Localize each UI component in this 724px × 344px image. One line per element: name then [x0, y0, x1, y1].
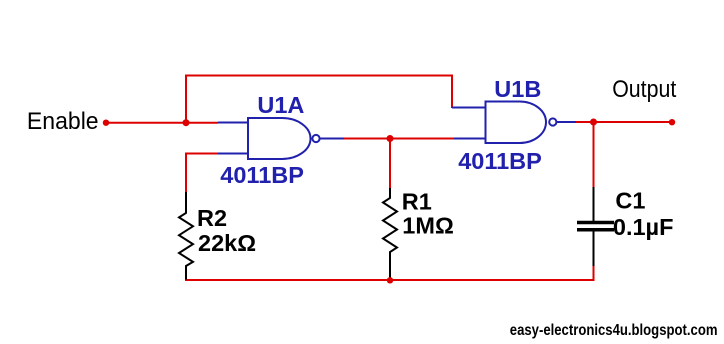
NAND gate U1A: [218, 118, 344, 159]
svg-text:4011BP: 4011BP: [220, 162, 304, 188]
wire: bottom rail: [185, 266, 594, 280]
junction at Enable/U1A input: [183, 119, 190, 126]
svg-text:U1B: U1B: [494, 76, 541, 102]
label U1B: [494, 76, 541, 102]
svg-text:Output: Output: [612, 75, 677, 102]
label C1: [615, 188, 645, 214]
capacitor C1: [577, 187, 614, 266]
label R1: [402, 189, 432, 215]
wire: junction down to R1 top: [389, 139, 391, 190]
svg-text:R1: R1: [402, 189, 432, 215]
wire: Enable to U1A input junction: [106, 122, 218, 124]
label U1A: [257, 92, 304, 118]
label R2: [197, 205, 227, 231]
value label 4011BP for U1A: [220, 162, 304, 188]
watermark text: [510, 322, 718, 339]
node Output label: [612, 75, 677, 102]
svg-text:Enable: Enable: [27, 108, 99, 135]
value label 22kΩ: [198, 230, 256, 256]
svg-text:1MΩ: 1MΩ: [402, 213, 454, 239]
junction at U1A output / R1: [387, 135, 394, 142]
svg-text:22kΩ: 22kΩ: [198, 230, 256, 256]
NAND gate U1B: [452, 102, 576, 144]
wire: U1A lower input from R2 column: [186, 154, 218, 194]
wire: U1B output to Output terminal: [575, 121, 672, 123]
value label 4011BP for U1B: [458, 148, 542, 174]
junction at U1B output / C1: [590, 119, 597, 126]
value label 0.1µF: [613, 214, 674, 240]
node Output terminal dot: [669, 119, 675, 125]
svg-text:4011BP: 4011BP: [458, 148, 542, 174]
node Enable label: [27, 108, 99, 135]
resistor R1: [383, 188, 397, 280]
resistor R2: [179, 192, 193, 280]
wire: feedback from junction up, across top rail, down to U1B pin: [186, 76, 452, 123]
value label 1MΩ: [402, 213, 454, 239]
svg-text:C1: C1: [615, 188, 645, 214]
wire: output junction down to C1 top: [593, 122, 595, 188]
node Enable terminal dot: [103, 120, 109, 126]
svg-text:easy-electronics4u.blogspot.co: easy-electronics4u.blogspot.com: [510, 322, 718, 339]
wire: U1A output to U1B lower input: [343, 138, 455, 140]
svg-text:R2: R2: [197, 205, 227, 231]
svg-text:U1A: U1A: [257, 92, 304, 118]
junction at R1 bottom rail: [387, 277, 393, 283]
svg-text:0.1µF: 0.1µF: [613, 214, 674, 240]
